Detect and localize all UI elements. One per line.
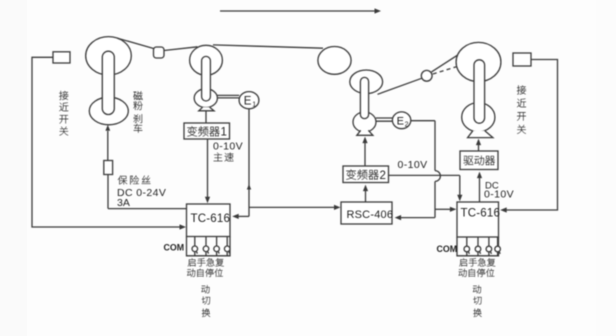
motor M1 base xyxy=(199,107,214,111)
potentiometer E2 xyxy=(392,112,410,129)
potentiometer E1 xyxy=(239,92,259,109)
unwind roll (left reel) xyxy=(86,37,132,75)
wire: inverter2 to motor M2 xyxy=(362,137,367,166)
idler roll xyxy=(318,47,351,75)
svg-text:0-10V: 0-10V xyxy=(398,159,428,171)
wire: RSC-406 to inverter2 xyxy=(363,185,368,202)
svg-text:2: 2 xyxy=(380,170,386,182)
wire: M2 shaft to E2 (coupling) xyxy=(376,118,393,121)
motor M2 base xyxy=(357,130,373,135)
svg-text:COM: COM xyxy=(437,244,458,254)
label 接近开关 (right) xyxy=(517,85,526,133)
wire: SQ1 to left rail and down to TC-616 xyxy=(32,57,186,229)
guide post (small square) xyxy=(154,47,165,58)
svg-text:0-10V: 0-10V xyxy=(484,188,514,200)
svg-text:RSC-406: RSC-406 xyxy=(347,209,394,221)
motor M3 body xyxy=(462,103,495,132)
wire: inverter1 to TC-616 (left) xyxy=(205,139,210,203)
inverter U2 变频器2 xyxy=(343,166,389,183)
svg-text:COM: COM xyxy=(164,242,185,252)
fuse F1 xyxy=(104,161,113,175)
wire: dashed web to winder core xyxy=(433,63,470,74)
svg-text:1: 1 xyxy=(252,102,256,109)
wire: web roll2 to idler xyxy=(213,45,323,48)
svg-text:E: E xyxy=(244,96,252,108)
button labels 启动 手自动切换 急停 复位 (left) xyxy=(188,258,224,266)
wire: web roll3 to dancer roller xyxy=(378,78,423,94)
wire: E2 signal with crossover hop, to TC-616 right and RSC-406 xyxy=(395,121,457,221)
TC-616 right terminal frame xyxy=(457,237,499,256)
roll 2 (pull roller) xyxy=(190,45,223,75)
controller TC-616 (right) xyxy=(457,202,499,237)
winder roll (right reel) xyxy=(456,42,501,81)
magnetic powder brake body xyxy=(89,97,128,125)
wire: driver to motor M3 xyxy=(476,139,481,151)
wire: brake control line with fuse xyxy=(105,125,186,209)
wire: SQ2 to right rail and into TC-616 right xyxy=(500,60,557,213)
roll 3 shaft (capsule) xyxy=(360,77,368,118)
controller TC-616 (left) xyxy=(187,204,231,237)
svg-text:TC-616: TC-616 xyxy=(191,213,231,225)
TC-616 left switch terminals xyxy=(192,237,230,256)
wire: TC-616 right to driver xyxy=(477,172,482,202)
motor M2 body xyxy=(353,112,376,132)
roll 2 shaft (capsule) xyxy=(202,56,211,101)
wire: web from unwind roll to guide xyxy=(118,38,155,48)
wire: web travel direction arrow xyxy=(220,8,381,13)
wire: web guide to roll 2 xyxy=(164,47,198,51)
TC-616 left terminal frame xyxy=(187,237,231,256)
wire: E1 signal down, to RSC-406 and to TC-616 right side xyxy=(232,109,340,219)
label 接近开关 (left) xyxy=(59,91,68,136)
button labels 启动 手自动切换 急停 复位 (right) xyxy=(459,258,495,266)
winder shaft (capsule) xyxy=(474,60,485,123)
TC-616 right switch terminals xyxy=(464,237,500,256)
wire: M1 shaft to E1 (coupling) xyxy=(217,95,239,98)
proximity switch SQ2 (right 接近开关) xyxy=(513,53,531,66)
proximity switch SQ1 (left 接近开关) xyxy=(53,52,70,63)
svg-text:TC-616: TC-616 xyxy=(461,207,501,219)
controller RSC-406 xyxy=(341,202,392,224)
driver 驱动器 xyxy=(460,151,498,170)
inverter U1 变频器1 xyxy=(184,123,230,139)
svg-text:E: E xyxy=(397,116,404,128)
svg-text:0-10V: 0-10V xyxy=(213,140,243,152)
motor M1 body xyxy=(194,89,217,108)
label 保险丝 DC 0-24V 3A xyxy=(118,176,151,185)
wire: web dancer to winder xyxy=(432,54,459,72)
wire: inverter2 to TC-616 right (crossed by hop) xyxy=(389,175,463,201)
wire: M1 to inverter 1 xyxy=(205,111,207,123)
svg-text:1: 1 xyxy=(221,127,227,139)
unwind roller shaft (capsule) xyxy=(102,51,114,114)
svg-text:2: 2 xyxy=(405,121,409,128)
motor M3 base xyxy=(468,131,493,138)
roll 3 (coating roller) xyxy=(350,70,383,94)
svg-text:3A: 3A xyxy=(117,197,130,209)
dancer guide roller xyxy=(421,70,432,81)
label 磁粉刹车 xyxy=(133,91,142,133)
